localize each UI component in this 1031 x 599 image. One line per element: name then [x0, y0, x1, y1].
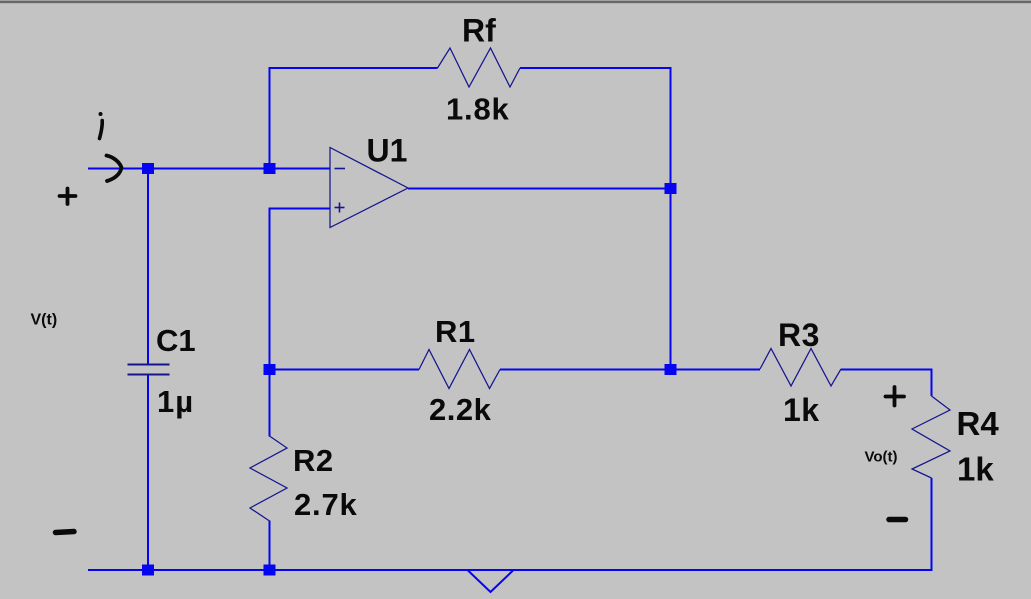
svg-text:1k: 1k	[783, 392, 820, 428]
node A (input / C1 top)	[142, 163, 154, 174]
node D (R1 R2 junction)	[264, 364, 276, 375]
wire capacitor branch lower	[147, 375, 149, 572]
top window border	[0, 0, 1031, 4]
svg-text:R2: R2	[293, 443, 334, 478]
svg-text:V(t): V(t)	[31, 312, 58, 329]
wire R4 to bottom corner	[931, 478, 933, 571]
resistor Rf	[438, 48, 521, 87]
svg-text:1µ: 1µ	[157, 384, 194, 419]
wire feedback top right segment	[520, 67, 672, 69]
svg-text:R4: R4	[957, 405, 1000, 442]
wire right column	[670, 67, 672, 371]
hand-drawn plus sign (output)	[886, 387, 905, 406]
wire mid node to R1	[269, 369, 419, 371]
hand-drawn minus sign (input)	[56, 532, 75, 533]
ground symbol	[468, 571, 513, 593]
svg-text:2.2k: 2.2k	[429, 392, 492, 427]
wire bottom rail	[88, 569, 933, 571]
resistor R3	[760, 349, 841, 387]
capacitor C1	[128, 365, 170, 375]
hand-drawn current label i	[99, 112, 103, 139]
wire input (source to inverting input)	[88, 168, 330, 170]
svg-text:U1: U1	[367, 133, 408, 169]
wire R1 to R3	[500, 369, 760, 371]
wire R2 bottom lead	[269, 521, 271, 572]
resistor R1	[419, 350, 500, 389]
svg-text:Rf: Rf	[462, 13, 496, 49]
node B (inverting input junction)	[264, 163, 276, 174]
node E (R1 right / right column junction)	[665, 364, 677, 375]
hand-drawn plus sign (input)	[60, 189, 76, 205]
svg-text:R3: R3	[778, 317, 820, 353]
wire feedback riser	[269, 67, 271, 170]
node F (bottom rail C1)	[142, 565, 154, 576]
wire R3 to corner	[841, 369, 933, 371]
wire op-amp output	[408, 188, 671, 190]
svg-text:1k: 1k	[957, 451, 994, 488]
wire non-inverting input	[269, 208, 331, 210]
svg-text:2.7k: 2.7k	[294, 487, 358, 522]
svg-text:1.8k: 1.8k	[446, 92, 510, 127]
hand-drawn minus sign (output)	[889, 517, 906, 523]
wire R2 top lead	[269, 370, 271, 437]
op-amp U1	[330, 148, 408, 228]
svg-text:C1: C1	[156, 323, 196, 358]
svg-text:Vo(t): Vo(t)	[865, 449, 898, 466]
wire right edge down to R4	[931, 369, 933, 397]
wire capacitor branch upper	[147, 168, 149, 365]
resistor R4	[912, 396, 950, 478]
wire non-inverting riser	[269, 208, 271, 371]
svg-text:R1: R1	[435, 314, 476, 349]
hand-drawn current arrow	[107, 156, 122, 182]
wire feedback top left segment	[269, 67, 438, 69]
node C (op-amp output junction)	[665, 183, 677, 194]
node G (bottom rail R2)	[264, 565, 276, 576]
resistor R2	[250, 436, 287, 521]
